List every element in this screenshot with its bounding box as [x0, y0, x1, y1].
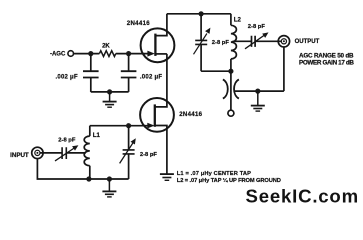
- svg-text:POWER GAIN 17 dB: POWER GAIN 17 dB: [299, 60, 354, 67]
- svg-text:AGC RANGE 50 dB: AGC RANGE 50 dB: [299, 52, 354, 59]
- svg-text:2-8 pF: 2-8 pF: [212, 40, 230, 46]
- inductor L2: [231, 14, 236, 71]
- capacitor C3 trimmer arrow: [55, 148, 75, 161]
- transistor Q2 2N4416 body: [140, 98, 174, 132]
- wire top rail: [167, 13, 231, 15]
- wire input jack down and bottom rail: [37, 159, 128, 179]
- capacitor C6 trimmer arrow: [245, 34, 266, 48]
- capacitor link left curved plate: [223, 79, 228, 98]
- capacitor C1 .002uF lead top: [90, 54, 92, 72]
- svg-text:2K: 2K: [102, 43, 110, 49]
- transistor Q1 channel bar: [154, 34, 156, 56]
- terminal OUTPUT jack: [278, 36, 289, 47]
- svg-text:L1: L1: [93, 132, 101, 139]
- capacitor C2 plates: [121, 71, 137, 77]
- svg-text:.002 μF: .002 μF: [140, 74, 163, 80]
- resistor R1 2K: [99, 51, 115, 57]
- capacitor C5 2-8pF lead top: [200, 14, 202, 41]
- node dot top rail C5: [199, 11, 204, 16]
- transistor Q2 channel bar: [154, 104, 156, 126]
- ground under bypass caps: [103, 92, 117, 107]
- node dot bottom rail ground: [107, 176, 112, 181]
- transistor Q1 2N4416 body: [141, 28, 175, 62]
- capacitor C3 2-8pF series plates: [62, 147, 66, 159]
- transistor Q2 gate arrowhead: [147, 123, 154, 129]
- wire L2 bottom to link terminal: [230, 71, 232, 110]
- ground at output line: [251, 91, 265, 111]
- wire coupling cap to output jack: [255, 40, 281, 42]
- capacitor C4 lead bottom: [128, 154, 130, 179]
- svg-text:L2: L2: [234, 17, 242, 24]
- node dot AGC-C2: [126, 51, 131, 56]
- svg-text:2N4416: 2N4416: [179, 111, 202, 118]
- wire series cap to L1 tap: [66, 152, 86, 154]
- node dot AGC-C1: [88, 51, 93, 56]
- terminal INPUT jack: [32, 147, 43, 158]
- wire AGC rail right into Q1 gate: [116, 53, 149, 55]
- transistor Q1 drain lead to top rail: [155, 14, 167, 36]
- ground at input tank: [102, 179, 116, 197]
- transistor Q1 source lead: [155, 53, 167, 55]
- svg-text:SeekIC.com: SeekIC.com: [246, 186, 359, 207]
- svg-text:.002 μF: .002 μF: [55, 74, 78, 80]
- terminal link output open circle: [228, 110, 234, 116]
- capacitor link right curved plate: [234, 79, 239, 98]
- svg-text:INPUT: INPUT: [10, 152, 29, 159]
- transistor Q1 gate arrowhead: [147, 51, 154, 57]
- ground at Q2 source: [160, 174, 174, 180]
- capacitor C2 .002uF lead top: [128, 54, 130, 72]
- wire output jack down: [283, 47, 285, 91]
- svg-text:2N4416: 2N4416: [127, 20, 150, 27]
- capacitor C1 plates: [83, 71, 99, 77]
- wire input jack to series cap: [40, 152, 62, 154]
- wire L1 tank top rail to Q2 gate: [90, 125, 149, 127]
- capacitor C5 trimmer arrow: [194, 34, 207, 55]
- svg-text:2-8 pF: 2-8 pF: [58, 137, 76, 143]
- svg-text:L1 = .07 μHy CENTER TAP: L1 = .07 μHy CENTER TAP: [177, 171, 251, 177]
- capacitor C4 plates: [123, 150, 135, 154]
- wire AGC rail left: [73, 53, 99, 55]
- capacitor C5 lead bottom: [200, 44, 202, 71]
- node dot L2 bottom: [228, 69, 233, 74]
- capacitor C1 lead bottom: [90, 78, 92, 92]
- capacitor C6 2-8pF coupling plates: [252, 36, 256, 47]
- transistor Q2 drain lead and interstage wire: [155, 54, 167, 107]
- svg-text:L2 = .07 μHy TAP ¼ UP FROM GRO: L2 = .07 μHy TAP ¼ UP FROM GROUND: [177, 177, 281, 184]
- svg-text:OUTPUT: OUTPUT: [295, 39, 320, 45]
- node dot L1 top rail: [126, 123, 131, 128]
- capacitor C5 plates: [195, 40, 207, 44]
- capacitor C4 2-8pF lead top: [128, 126, 130, 150]
- capacitor C2 lead bottom: [128, 78, 130, 92]
- svg-text:2-8 pF: 2-8 pF: [248, 24, 266, 30]
- capacitor C4 trimmer arrow: [120, 142, 134, 163]
- wire L2 tank bottom: [201, 70, 231, 72]
- terminal AGC input: [68, 51, 74, 57]
- node dot ground bus: [107, 89, 112, 94]
- wire L2 tap to coupling cap: [233, 40, 252, 42]
- transistor Q2 source lead down: [155, 126, 167, 174]
- node dot L1 bottom: [86, 176, 91, 181]
- node dot output ground: [255, 89, 260, 94]
- svg-text:-AGC: -AGC: [50, 52, 66, 58]
- svg-text:2-8 pF: 2-8 pF: [140, 152, 158, 158]
- wire link plate to output line: [235, 90, 284, 92]
- inductor L1: [84, 126, 90, 179]
- wire C1-C2 bottom bus: [91, 91, 129, 93]
